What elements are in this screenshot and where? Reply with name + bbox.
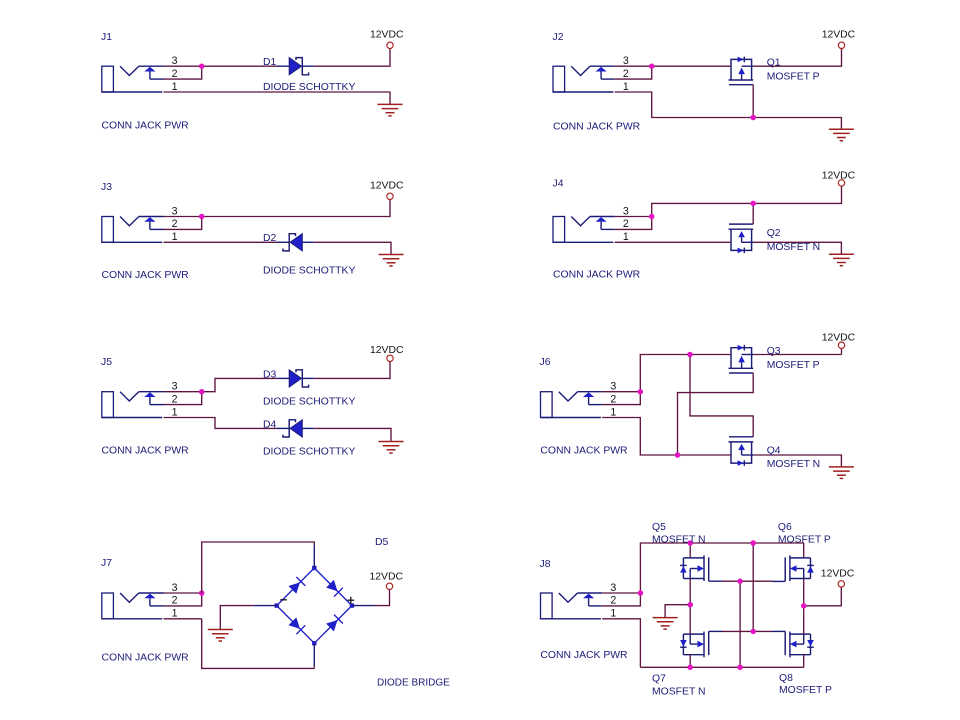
svg-text:CONN JACK PWR: CONN JACK PWR bbox=[553, 122, 641, 133]
svg-text:1: 1 bbox=[623, 81, 629, 93]
svg-text:2: 2 bbox=[623, 218, 629, 230]
svg-text:3: 3 bbox=[610, 381, 616, 393]
svg-text:DIODE SCHOTTKY: DIODE SCHOTTKY bbox=[263, 82, 355, 93]
svg-text:MOSFET P: MOSFET P bbox=[779, 685, 832, 696]
svg-text:MOSFET P: MOSFET P bbox=[767, 71, 820, 82]
svg-text:J5: J5 bbox=[101, 357, 112, 368]
svg-text:12VDC: 12VDC bbox=[822, 332, 856, 343]
svg-text:3: 3 bbox=[172, 55, 178, 67]
svg-text:CONN JACK PWR: CONN JACK PWR bbox=[102, 120, 190, 131]
svg-text:12VDC: 12VDC bbox=[822, 30, 856, 41]
svg-text:1: 1 bbox=[623, 231, 629, 243]
svg-text:12VDC: 12VDC bbox=[370, 30, 404, 41]
svg-text:MOSFET P: MOSFET P bbox=[778, 535, 831, 546]
svg-text:12VDC: 12VDC bbox=[822, 171, 856, 182]
svg-text:2: 2 bbox=[623, 68, 629, 80]
svg-text:J6: J6 bbox=[540, 357, 551, 368]
svg-text:CONN JACK PWR: CONN JACK PWR bbox=[102, 445, 190, 456]
svg-text:D5: D5 bbox=[375, 537, 389, 548]
svg-text:1: 1 bbox=[172, 231, 178, 243]
svg-text:MOSFET N: MOSFET N bbox=[652, 535, 706, 546]
svg-text:J7: J7 bbox=[101, 558, 112, 569]
svg-text:CONN JACK PWR: CONN JACK PWR bbox=[540, 650, 628, 661]
svg-text:2: 2 bbox=[610, 393, 616, 405]
svg-text:3: 3 bbox=[610, 582, 616, 594]
svg-text:Q1: Q1 bbox=[767, 57, 781, 68]
svg-text:2: 2 bbox=[172, 68, 178, 80]
svg-text:1: 1 bbox=[172, 81, 178, 93]
svg-text:12VDC: 12VDC bbox=[370, 571, 404, 582]
svg-text:Q5: Q5 bbox=[652, 522, 666, 533]
svg-text:CONN JACK PWR: CONN JACK PWR bbox=[553, 270, 641, 281]
svg-text:12VDC: 12VDC bbox=[370, 345, 404, 356]
svg-text:J1: J1 bbox=[101, 32, 112, 43]
svg-text:1: 1 bbox=[610, 608, 616, 620]
svg-text:MOSFET N: MOSFET N bbox=[767, 459, 821, 470]
svg-text:J4: J4 bbox=[553, 179, 564, 190]
svg-text:1: 1 bbox=[172, 406, 178, 418]
svg-text:CONN JACK PWR: CONN JACK PWR bbox=[102, 270, 190, 281]
svg-text:CONN JACK PWR: CONN JACK PWR bbox=[102, 652, 190, 663]
svg-text:12VDC: 12VDC bbox=[370, 181, 404, 192]
svg-text:1: 1 bbox=[172, 608, 178, 620]
svg-text:3: 3 bbox=[172, 381, 178, 393]
svg-text:Q6: Q6 bbox=[778, 522, 792, 533]
svg-text:2: 2 bbox=[172, 595, 178, 607]
svg-text:3: 3 bbox=[172, 582, 178, 594]
svg-text:DIODE SCHOTTKY: DIODE SCHOTTKY bbox=[263, 265, 355, 276]
svg-text:D1: D1 bbox=[263, 57, 277, 68]
svg-text:MOSFET P: MOSFET P bbox=[767, 360, 820, 371]
svg-text:Q2: Q2 bbox=[767, 228, 781, 239]
svg-text:DIODE SCHOTTKY: DIODE SCHOTTKY bbox=[263, 447, 355, 458]
svg-text:2: 2 bbox=[172, 393, 178, 405]
svg-text:CONN JACK PWR: CONN JACK PWR bbox=[540, 446, 628, 457]
svg-text:1: 1 bbox=[610, 406, 616, 418]
svg-text:Q7: Q7 bbox=[652, 674, 666, 685]
svg-text:Q3: Q3 bbox=[767, 346, 781, 357]
svg-text:D4: D4 bbox=[263, 420, 277, 431]
svg-text:2: 2 bbox=[610, 595, 616, 607]
svg-text:DIODE SCHOTTKY: DIODE SCHOTTKY bbox=[263, 397, 355, 408]
svg-text:3: 3 bbox=[623, 55, 629, 67]
svg-text:J3: J3 bbox=[101, 182, 112, 193]
svg-text:DIODE BRIDGE: DIODE BRIDGE bbox=[377, 677, 450, 688]
svg-text:Q4: Q4 bbox=[767, 446, 781, 457]
svg-text:MOSFET N: MOSFET N bbox=[767, 242, 821, 253]
svg-text:3: 3 bbox=[623, 205, 629, 217]
svg-text:3: 3 bbox=[172, 205, 178, 217]
svg-text:MOSFET N: MOSFET N bbox=[652, 687, 706, 698]
svg-text:D2: D2 bbox=[263, 233, 277, 244]
svg-text:12VDC: 12VDC bbox=[821, 569, 855, 580]
svg-text:D3: D3 bbox=[263, 369, 277, 380]
svg-text:J8: J8 bbox=[540, 559, 551, 570]
svg-text:2: 2 bbox=[172, 218, 178, 230]
svg-text:Q8: Q8 bbox=[779, 673, 793, 684]
svg-text:J2: J2 bbox=[553, 32, 564, 43]
